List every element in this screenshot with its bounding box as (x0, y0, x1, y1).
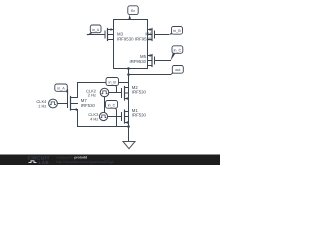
svg-text:IRF530: IRF530 (81, 103, 96, 108)
ground (123, 142, 135, 149)
transistor M4 IRF9530 (148, 28, 169, 40)
wire top 6v rail (114, 19, 148, 21)
svg-text:out: out (175, 68, 180, 72)
svg-text:in_A: in_A (57, 87, 65, 91)
logo CircuitLab (28, 156, 50, 165)
svg-text:http://circuitlab.com/c/gqsmra: http://circuitlab.com/c/gqsmraa45Qgk (56, 160, 114, 164)
flag in_B at M2 gate (106, 78, 119, 93)
svg-text:4 Hz: 4 Hz (90, 116, 98, 121)
source CLK3 4 Hz (99, 112, 107, 120)
wire M3 drain-source vertical (113, 20, 115, 69)
wire ground rail (78, 110, 129, 127)
credit text (56, 156, 114, 164)
flag in_A at M3 gate (87, 25, 101, 36)
flag 6v (128, 6, 138, 20)
svg-text:in_C: in_C (174, 48, 182, 52)
svg-text:in_A: in_A (92, 28, 100, 32)
wire M7 drain to out node (78, 83, 129, 98)
svg-text:IRF9530: IRF9530 (117, 37, 134, 42)
wire out node horizontal (114, 68, 148, 70)
transistor M7 IRF530 (57, 97, 77, 111)
svg-text:IRF530: IRF530 (132, 89, 147, 94)
junction dot out flag branch (127, 73, 130, 76)
svg-text:LAB: LAB (39, 160, 50, 165)
wire out flag branch (129, 74, 172, 76)
flag in_C at M5 gate (170, 46, 182, 61)
svg-text:IRF9530: IRF9530 (135, 37, 152, 42)
flag in_A at M7 gate (55, 84, 68, 104)
svg-text:in_C: in_C (108, 103, 116, 107)
svg-text:2 Hz: 2 Hz (88, 93, 96, 98)
junction dot out node (127, 67, 130, 70)
watermark bar (0, 155, 220, 166)
wire out vertical to M2 drain and ground (128, 69, 130, 142)
transistor M3 IRF9530 (87, 28, 113, 40)
svg-text:IRF9530: IRF9530 (130, 59, 147, 64)
svg-text:IRF530: IRF530 (132, 113, 147, 118)
flag in_B at M4 gate (169, 27, 183, 35)
flag in_C at M1 gate (106, 101, 118, 117)
source CLK2 2 Hz (100, 88, 109, 97)
svg-text:in_B: in_B (109, 81, 117, 85)
svg-text:6v: 6v (131, 9, 135, 13)
wire CLK3 ground drop (116, 110, 118, 127)
wire CLK2 to CLK3 chain (104, 97, 106, 113)
junction dot ground rail (127, 125, 130, 128)
source CLK4 1 Hz (49, 99, 58, 108)
transistor M5 IRF9530 (148, 54, 171, 66)
wire M4-M5 vertical (147, 20, 149, 69)
svg-text:in_B: in_B (173, 29, 181, 33)
transistor M1 IRF530 (108, 110, 129, 124)
svg-text:1 Hz: 1 Hz (38, 103, 46, 108)
transistor M2 IRF530 (109, 87, 129, 101)
flag out (170, 66, 183, 75)
